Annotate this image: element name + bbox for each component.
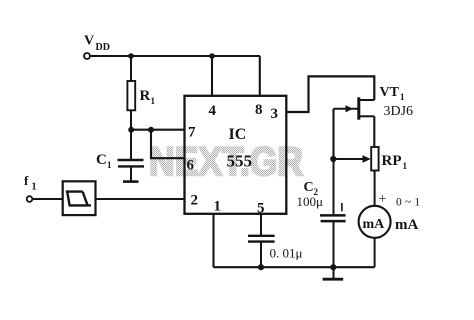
junction: rail / R1 (128, 53, 134, 59)
junction dot C2/rail (330, 264, 336, 270)
label f1 (24, 173, 37, 193)
svg-text:0. 01μ: 0. 01μ (270, 246, 303, 261)
wire: pin 3 to drain (286, 76, 374, 112)
transistor VT1 (JFET 3DJ6) (334, 97, 375, 119)
wire: C3 to rail (260, 242, 262, 268)
wire: meter to bottom rail (374, 238, 376, 267)
wire: source to RP1 (373, 116, 375, 147)
svg-text:V: V (84, 34, 94, 49)
svg-text:6: 6 (187, 158, 195, 174)
potentiometer RP1 body (371, 147, 378, 171)
capacitor C3 0.01u (248, 236, 275, 242)
label C1 (96, 152, 112, 170)
terminal f1 (27, 196, 33, 202)
svg-text:8: 8 (255, 102, 263, 118)
C2 polarity tick (341, 203, 343, 211)
svg-text:3: 3 (271, 106, 279, 122)
wire: VDD top rail (90, 55, 260, 57)
wire: RP1 to meter (374, 171, 376, 206)
svg-text:1: 1 (214, 199, 222, 215)
svg-text:1: 1 (403, 161, 408, 171)
svg-text:VT: VT (380, 85, 400, 100)
wire: gate to wiper node (332, 109, 334, 159)
wire: node B to pin 6 (151, 130, 185, 159)
junction dot node B (148, 127, 154, 133)
svg-text:1: 1 (107, 160, 112, 170)
label C2 (304, 180, 319, 197)
meter M1 (359, 206, 391, 238)
svg-text:mA: mA (395, 217, 418, 233)
label R1 (140, 88, 156, 106)
wire: node A to C1 (130, 130, 132, 160)
svg-text:C: C (96, 152, 107, 168)
hysteresis symbol (66, 192, 91, 206)
bottom rail (214, 266, 375, 268)
wire: f1 to schmitt (32, 198, 62, 200)
schmitt trigger box (63, 181, 96, 215)
svg-text:7: 7 (188, 125, 196, 141)
label VDD (84, 34, 110, 54)
svg-text:1: 1 (32, 182, 37, 193)
wire: schmitt to pin 2 (96, 198, 185, 200)
svg-text:C: C (304, 180, 314, 195)
svg-text:R: R (140, 88, 151, 104)
junction dot node A (128, 127, 134, 133)
label RP1 (382, 153, 408, 171)
wire: pin 5 to C3 (260, 214, 262, 236)
wire: C1 to ground (130, 166, 132, 180)
svg-text:RP: RP (382, 153, 402, 169)
svg-text:1: 1 (400, 92, 405, 102)
svg-text:100μ: 100μ (297, 194, 324, 209)
wire: rail to R1 (130, 56, 132, 81)
wire: C2 to rail (333, 221, 335, 267)
svg-text:1: 1 (151, 96, 156, 106)
capacitor C2 (320, 215, 346, 221)
svg-text:0~1: 0~1 (396, 197, 423, 209)
svg-text:555: 555 (227, 152, 253, 171)
ground (bottom) (323, 267, 344, 279)
gate arrowhead (346, 105, 354, 112)
junction: rail / pin4 (209, 53, 215, 59)
svg-text:DD: DD (96, 42, 110, 53)
wire: wiper node to C2 (333, 159, 335, 215)
svg-text:f: f (24, 173, 29, 188)
capacitor C1 (118, 160, 145, 166)
wire: pin 7 (131, 129, 185, 131)
terminal VDD (84, 53, 90, 59)
wire: pin 4 (211, 56, 213, 96)
svg-text:IC: IC (229, 126, 247, 143)
svg-text:+: + (379, 192, 387, 207)
svg-text:4: 4 (209, 103, 217, 119)
resistor R1 (127, 81, 135, 110)
wire: pin 1 to rail (212, 214, 214, 267)
label VT1 (380, 85, 406, 102)
IC U1 555 box (185, 96, 287, 214)
wiper arrow to RP1 (334, 158, 365, 160)
svg-text:3DJ6: 3DJ6 (384, 104, 414, 119)
junction dot wiper node (330, 156, 336, 162)
svg-text:2: 2 (191, 193, 199, 209)
wire: pin 8 (259, 56, 261, 96)
wire: R1 to node A (130, 110, 132, 129)
ground (C1) (123, 180, 139, 183)
junction dot C3/rail (258, 264, 264, 270)
svg-text:mA: mA (363, 217, 386, 232)
